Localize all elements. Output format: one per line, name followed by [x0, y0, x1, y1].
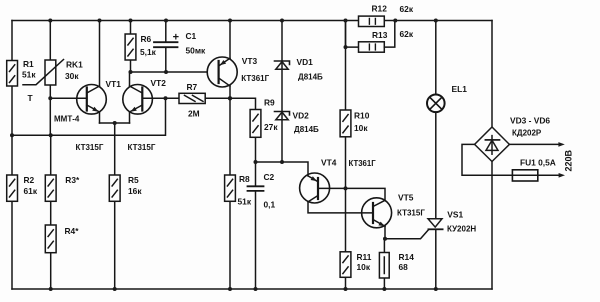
wire top positive rail: [12, 20, 492, 22]
label R13: [372, 29, 414, 40]
svg-text:R12: R12: [372, 4, 388, 14]
svg-text:220В: 220В: [564, 149, 574, 171]
label R9: [264, 98, 278, 133]
label VD1: [297, 57, 324, 82]
svg-text:C2: C2: [264, 172, 275, 182]
svg-text:10к: 10к: [357, 262, 371, 272]
wire lamp thyristor column: [435, 21, 437, 290]
svg-text:C1: C1: [186, 31, 197, 41]
wire emitter tie: [100, 122, 130, 124]
label C2: [264, 172, 276, 210]
svg-text:R11: R11: [357, 252, 372, 262]
wire bridge AC left to fuse: [462, 144, 512, 175]
resistor R4: [45, 225, 56, 253]
svg-text:51к: 51к: [22, 70, 36, 80]
svg-text:R8: R8: [239, 174, 250, 184]
svg-text:R9: R9: [264, 98, 275, 108]
svg-text:VD2: VD2: [293, 111, 310, 121]
wire node to R9 and C2 column: [230, 98, 256, 162]
label KT315G VT1: [76, 143, 104, 152]
svg-text:10к: 10к: [354, 123, 368, 133]
capacitor C2: [248, 162, 264, 289]
label VT5: [397, 193, 425, 218]
label MMT-4: [54, 115, 80, 124]
transistor VT4: [300, 173, 373, 213]
wire node to VT4 emitter: [256, 162, 309, 176]
label R14: [399, 252, 415, 272]
svg-text:+: +: [173, 32, 179, 44]
wire left vertical column: [11, 21, 13, 290]
label R3: [65, 175, 80, 185]
svg-text:T: T: [28, 93, 34, 103]
resistor R13: [346, 21, 395, 53]
capacitor C1: [154, 21, 178, 73]
resistor R9: [250, 110, 261, 138]
svg-text:VD3 - VD6: VD3 - VD6: [510, 116, 550, 126]
label R10: [354, 111, 370, 134]
svg-text:62к: 62к: [400, 4, 414, 14]
svg-text:КТ315Г: КТ315Г: [397, 209, 425, 218]
wire zener column: [281, 21, 283, 163]
svg-text:КТ315Г: КТ315Г: [128, 143, 156, 152]
label EL1: [452, 84, 468, 94]
resistor R12: [359, 16, 385, 26]
resistor R1: [7, 61, 18, 87]
label R1: [22, 59, 36, 103]
label R7: [187, 82, 200, 119]
zener VD1: [275, 61, 290, 69]
wire R3 R4 column: [50, 135, 52, 289]
svg-text:2М: 2М: [188, 109, 200, 119]
label C1: [186, 31, 207, 56]
svg-text:R3*: R3*: [65, 175, 80, 185]
bridge rectifier VD3-VD6: [475, 127, 510, 162]
label VT4: [321, 158, 376, 169]
lamp EL1: [427, 95, 445, 113]
svg-text:R5: R5: [128, 175, 139, 185]
resistor R6: [125, 34, 136, 60]
label VS1: [447, 209, 476, 233]
wire VT3 emitter node down through R8: [229, 98, 231, 289]
wire gate to VS1: [385, 230, 429, 239]
svg-text:ММТ-4: ММТ-4: [54, 115, 80, 124]
fuse FU1: [512, 170, 565, 181]
wire divider rail: [12, 98, 166, 135]
svg-text:R4*: R4*: [65, 226, 80, 236]
label R4: [65, 226, 80, 236]
label C1 plus: [173, 32, 179, 44]
svg-text:FU1 0,5А: FU1 0,5А: [520, 158, 556, 168]
svg-text:27к: 27к: [264, 122, 278, 132]
svg-text:62к: 62к: [400, 29, 414, 39]
wire base feed to VT3: [131, 71, 208, 73]
label 220V: [564, 149, 574, 171]
svg-text:R1: R1: [23, 59, 34, 69]
transistor VT2: [123, 72, 166, 123]
label R6: [140, 34, 157, 57]
label VT1: [106, 79, 122, 89]
resistor R11: [340, 252, 351, 277]
svg-text:КТ315Г: КТ315Г: [76, 143, 104, 152]
svg-text:VT4: VT4: [321, 158, 337, 168]
label FU1: [520, 158, 556, 168]
label VT3: [241, 56, 269, 83]
svg-text:R6: R6: [141, 34, 152, 44]
label RK1: [65, 60, 83, 82]
resistor R5: [109, 175, 120, 201]
svg-text:VT3: VT3: [242, 56, 258, 66]
transistor VT1: [50, 21, 106, 124]
svg-text:RK1: RK1: [66, 60, 83, 70]
svg-text:VS1: VS1: [447, 209, 463, 219]
label R2: [24, 175, 38, 196]
resistor R3: [45, 175, 56, 201]
svg-text:R7: R7: [187, 82, 198, 92]
resistor R10: [340, 110, 351, 137]
svg-text:КУ202Н: КУ202Н: [447, 225, 476, 234]
wire R5 emitter column: [114, 123, 116, 289]
wire right vertical bridge feed: [491, 21, 493, 290]
wire bridge AC right output: [509, 142, 564, 147]
wire bottom common rail: [12, 288, 492, 290]
svg-text:16к: 16к: [128, 186, 142, 196]
label VT2: [151, 78, 167, 88]
svg-text:R10: R10: [354, 111, 370, 121]
svg-text:Д814Б: Д814Б: [294, 125, 319, 134]
label R12: [372, 4, 414, 15]
label R8: [238, 174, 252, 207]
thermistor RK1: [23, 60, 64, 86]
resistor R7: [166, 93, 231, 103]
wire R10 R11 column: [345, 21, 347, 290]
svg-text:VT5: VT5: [398, 193, 414, 203]
svg-text:50мк: 50мк: [186, 46, 207, 56]
thyristor VS1: [428, 219, 443, 230]
svg-text:R14: R14: [399, 252, 415, 262]
svg-text:61к: 61к: [24, 186, 38, 196]
transistor VT5: [346, 188, 392, 238]
label VD3-VD6: [510, 116, 550, 138]
svg-text:КТ361Г: КТ361Г: [349, 159, 377, 168]
wire VT5 emitter to R14: [383, 239, 385, 289]
svg-text:VT2: VT2: [151, 78, 167, 88]
svg-text:30к: 30к: [65, 71, 79, 81]
svg-text:R2: R2: [24, 175, 35, 185]
svg-text:51к: 51к: [238, 197, 252, 207]
resistor R8: [225, 175, 236, 201]
label VD2: [293, 111, 320, 135]
svg-text:КД202Р: КД202Р: [512, 129, 542, 138]
wire R6 column: [130, 21, 132, 73]
svg-text:VD1: VD1: [297, 57, 314, 67]
label R5: [128, 175, 142, 196]
svg-text:68: 68: [399, 262, 409, 272]
svg-text:EL1: EL1: [452, 84, 468, 94]
resistor R14: [379, 253, 389, 279]
transistor VT3: [207, 21, 237, 99]
svg-text:0,1: 0,1: [264, 200, 276, 210]
label R11: [357, 252, 372, 272]
wire RK1 column: [49, 21, 51, 136]
svg-text:КТ361Г: КТ361Г: [241, 74, 269, 83]
svg-text:5,1к: 5,1к: [140, 47, 157, 57]
svg-text:VT1: VT1: [106, 79, 122, 89]
svg-text:Д814Б: Д814Б: [298, 73, 323, 82]
label KT315G VT2: [128, 143, 156, 152]
resistor R2: [7, 175, 18, 201]
svg-text:R13: R13: [372, 30, 388, 40]
zener VD2: [275, 112, 290, 120]
